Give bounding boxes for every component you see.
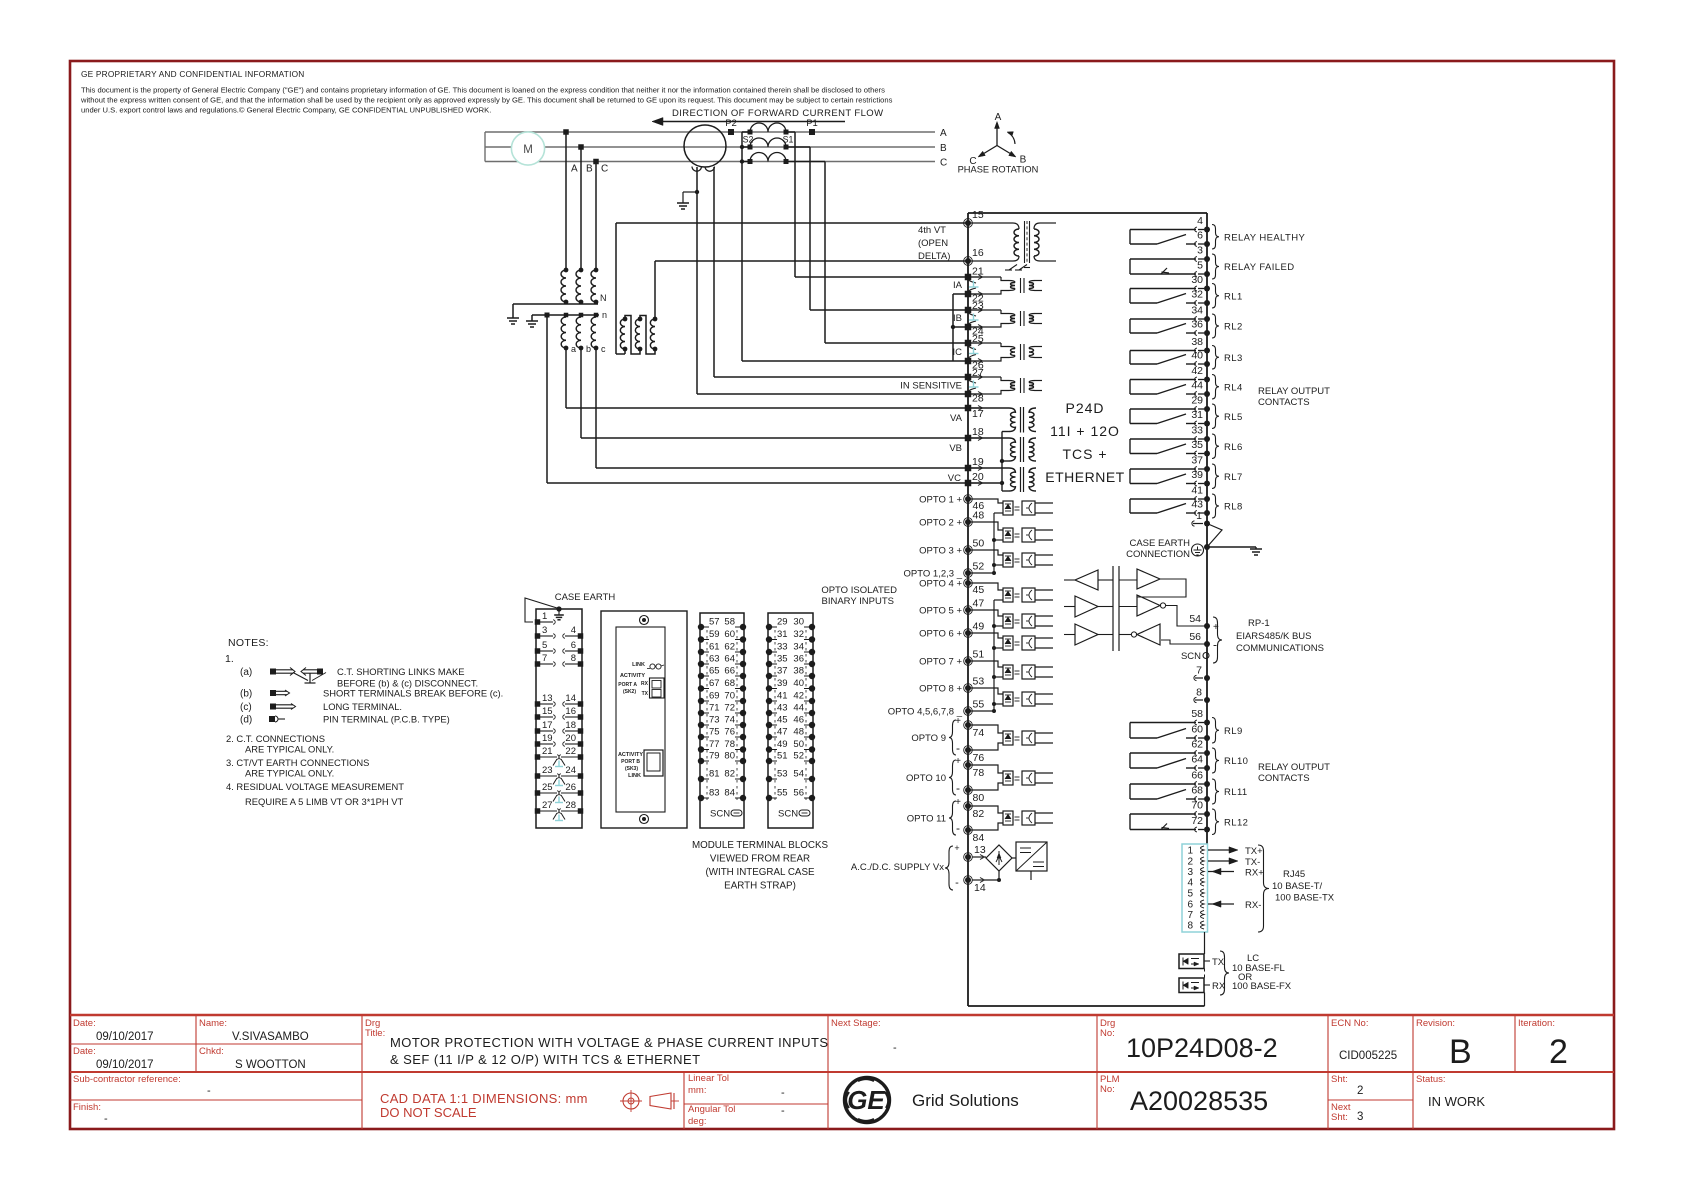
wire c to terminal 19 [595, 348, 597, 468]
svg-text:3: 3 [1187, 867, 1193, 878]
svg-text:31: 31 [1191, 409, 1203, 421]
terminal block TB2 outline [700, 613, 744, 828]
svg-text:34: 34 [1191, 305, 1203, 317]
svg-text:8: 8 [571, 653, 576, 664]
TB2 dashed strap [706, 630, 708, 800]
svg-text:OPTO 11: OPTO 11 [907, 814, 946, 825]
svg-text:63: 63 [709, 654, 720, 665]
terminal 28 [965, 391, 972, 398]
svg-text:n: n [602, 310, 607, 320]
svg-text:VC: VC [948, 473, 961, 484]
svg-text:55: 55 [777, 788, 788, 799]
relay contact RL3 [1204, 348, 1210, 354]
svg-text:23: 23 [542, 765, 553, 776]
svg-text:46: 46 [793, 715, 804, 726]
svg-text:62: 62 [724, 642, 735, 653]
terminal 25 [965, 340, 972, 347]
svg-text:deg:: deg: [688, 1116, 707, 1127]
svg-text:67: 67 [709, 678, 720, 689]
opto input OPTO 11 [965, 803, 971, 809]
svg-text:PORT B: PORT B [621, 759, 640, 765]
svg-text:MODULE TERMINAL BLOCKS: MODULE TERMINAL BLOCKS [692, 840, 829, 851]
opto input 8 [968, 688, 1003, 694]
svg-text:Sht:: Sht: [1331, 1112, 1348, 1123]
svg-text:35: 35 [1191, 439, 1203, 451]
svg-text:4. RESIDUAL VOLTAGE MEASURE: 4. RESIDUAL VOLTAGE MEASUREMENT [226, 781, 404, 792]
opto input 2 [968, 522, 1003, 530]
svg-text:(a): (a) [240, 667, 252, 678]
svg-text:-: - [956, 821, 960, 835]
svg-text:Finish:: Finish: [73, 1102, 101, 1113]
svg-text:PHASE ROTATION: PHASE ROTATION [958, 165, 1039, 175]
svg-text:OPTO 4 +: OPTO 4 + [919, 579, 962, 590]
VT secondary winding b [579, 313, 584, 318]
terminal 8 [1204, 697, 1210, 703]
svg-text:56: 56 [1189, 631, 1201, 643]
svg-text:V.SIVASAMBO: V.SIVASAMBO [232, 1031, 309, 1043]
terminal 24 [965, 324, 972, 331]
svg-text:29: 29 [777, 617, 788, 628]
TB3 terminals 51/52 [766, 758, 772, 764]
svg-text:RL6: RL6 [1224, 442, 1243, 453]
TB1 terminals 5/6 [535, 648, 541, 654]
svg-text:82: 82 [973, 808, 985, 820]
relay contact RL2 [1204, 316, 1210, 322]
relay contact RL11 [1204, 781, 1210, 787]
opto input OPTO 9 [965, 722, 971, 728]
module screw top [640, 616, 649, 625]
wire n to earth [531, 315, 533, 321]
svg-text:13: 13 [542, 693, 553, 704]
svg-text:ETHERNET: ETHERNET [1045, 469, 1124, 485]
svg-text:31: 31 [777, 629, 788, 640]
svg-text:25: 25 [542, 782, 553, 793]
wire phase A drop [563, 129, 569, 135]
TB1 terminals 27/28 [535, 808, 541, 814]
IN shorting link [969, 380, 977, 383]
terminal 26 [965, 358, 972, 365]
TB2 terminals 79/80 [698, 758, 704, 764]
opto terminal 50 [965, 547, 971, 553]
svg-text:77: 77 [709, 739, 720, 750]
relay contact RL5 [1204, 406, 1210, 412]
svg-text:IN WORK: IN WORK [1428, 1094, 1485, 1109]
svg-text:+: + [954, 843, 959, 853]
svg-text:S WOOTTON: S WOOTTON [235, 1059, 306, 1071]
svg-text:-: - [956, 741, 960, 755]
svg-text:MOTOR PROTECTION WITH VOLTAGE: MOTOR PROTECTION WITH VOLTAGE & PHASE CU… [390, 1035, 828, 1050]
TB3 terminals 29/30 [766, 624, 772, 630]
svg-text:DELTA): DELTA) [918, 251, 950, 262]
terminal 27 [965, 374, 972, 381]
ring CT T1 (core balance) [684, 125, 726, 167]
svg-text:18: 18 [972, 426, 984, 438]
terminal 18 [965, 435, 972, 442]
wire S2 common riser [741, 132, 743, 361]
TB1 terminals 17/18 [535, 728, 541, 734]
svg-text:2: 2 [1187, 857, 1193, 868]
svg-text:ECN No:: ECN No: [1331, 1018, 1368, 1029]
svg-text:ACTIVITY: ACTIVITY [620, 673, 645, 679]
svg-text:83: 83 [709, 788, 720, 799]
svg-text:100 BASE-FX: 100 BASE-FX [1232, 981, 1292, 992]
svg-text:B: B [1449, 1033, 1472, 1071]
svg-text:8: 8 [1196, 687, 1202, 699]
relay contact RL12 [1204, 811, 1210, 817]
svg-text:P24D: P24D [1065, 400, 1104, 416]
svg-text:-: - [781, 1105, 785, 1117]
svg-text:a: a [571, 344, 576, 354]
svg-text:COMMUNICATIONS: COMMUNICATIONS [1236, 643, 1324, 654]
svg-text:1: 1 [1196, 510, 1202, 522]
svg-text:& SEF (11 I/P & 12 O/P) WITH T: & SEF (11 I/P & 12 O/P) WITH TCS & ETHER… [390, 1052, 700, 1067]
psu dc/dc converter U2 [1016, 842, 1047, 871]
svg-text:under U.S. export control laws: under U.S. export control laws and regul… [81, 106, 491, 115]
svg-text:30: 30 [793, 617, 804, 628]
IA shorting link [969, 280, 977, 283]
svg-text:39: 39 [777, 678, 788, 689]
VT secondary winding c [594, 313, 599, 318]
svg-text:68: 68 [724, 678, 735, 689]
svg-text:CASE EARTH: CASE EARTH [555, 592, 616, 603]
svg-text:Iteration:: Iteration: [1518, 1018, 1555, 1029]
svg-text:LINK: LINK [632, 662, 645, 668]
svg-text:B: B [940, 143, 947, 154]
svg-text:TX-: TX- [1245, 857, 1260, 868]
direction arrow [658, 121, 845, 123]
svg-text:No:: No: [1100, 1084, 1115, 1095]
line CT phase C [750, 153, 786, 162]
svg-text:20: 20 [972, 471, 984, 483]
VT primary winding C [594, 268, 599, 273]
svg-text:50: 50 [973, 538, 985, 550]
wire terminal 15 to open delta [616, 222, 968, 224]
TB2 terminals 75/76 [698, 734, 704, 740]
svg-text:21: 21 [542, 746, 553, 757]
svg-text:11I + 12O: 11I + 12O [1050, 423, 1120, 439]
svg-text:18: 18 [565, 720, 576, 731]
TB1 terminals 19/20 [535, 741, 541, 747]
svg-text:OPTO 7 +: OPTO 7 + [919, 657, 962, 668]
svg-text:RL9: RL9 [1224, 726, 1243, 737]
svg-text:M: M [523, 144, 533, 156]
svg-text:CASE EARTH: CASE EARTH [1129, 538, 1190, 549]
svg-text:58: 58 [1191, 708, 1203, 720]
svg-text:53: 53 [973, 676, 985, 688]
VT VB input [968, 437, 1009, 439]
svg-text:62: 62 [1191, 739, 1203, 751]
svg-text:64: 64 [1191, 754, 1203, 766]
svg-text:PIN TERMINAL (P.C.B. TYPE): PIN TERMINAL (P.C.B. TYPE) [323, 714, 450, 725]
svg-text:49: 49 [777, 739, 788, 750]
svg-text:5: 5 [1187, 889, 1193, 900]
svg-text:19: 19 [542, 733, 553, 744]
relay contact RL8 [1204, 496, 1210, 502]
svg-text:CONTACTS: CONTACTS [1258, 773, 1310, 784]
svg-text:66: 66 [1191, 770, 1203, 782]
opto terminal 48 [965, 519, 971, 525]
svg-text:OPTO ISOLATED: OPTO ISOLATED [821, 585, 897, 596]
svg-text:RX: RX [1212, 981, 1226, 992]
svg-text:-: - [781, 1087, 785, 1099]
svg-text:LONG TERMINAL.: LONG TERMINAL. [323, 701, 402, 712]
TB1 terminals 3/4 [535, 633, 541, 639]
svg-text:CONTACTS: CONTACTS [1258, 397, 1310, 408]
TB2 terminals 81/82 [698, 776, 704, 782]
svg-text:3: 3 [542, 625, 547, 636]
svg-text:GE PROPRIETARY AND CONFIDENTIA: GE PROPRIETARY AND CONFIDENTIAL INFORMAT… [81, 69, 304, 79]
relay P24D case outline [968, 212, 1207, 214]
wire ring CT to terminal 28 [696, 167, 698, 394]
wire b to terminal 18 VB [580, 348, 582, 438]
svg-text:35: 35 [777, 654, 788, 665]
svg-text:41: 41 [777, 691, 788, 702]
bus left end wire [484, 132, 486, 162]
svg-text:SCN: SCN [710, 809, 730, 820]
TB3 terminals 55/56 [766, 795, 772, 801]
svg-text:RX-: RX- [1245, 900, 1261, 911]
isolation barrier capacitors [1112, 566, 1114, 651]
TB1 terminals 21/22 [535, 754, 541, 760]
svg-text:70: 70 [724, 691, 735, 702]
opto terminal 55 [965, 708, 971, 714]
terminal 13 [965, 854, 971, 860]
svg-text:15: 15 [972, 209, 984, 221]
module screw bottom [640, 815, 649, 824]
svg-text:10 BASE-T/: 10 BASE-T/ [1272, 881, 1323, 892]
motor M1 [511, 132, 544, 165]
opto input 3 [968, 550, 1003, 555]
svg-text:51: 51 [777, 751, 788, 762]
svg-text:57: 57 [709, 617, 720, 628]
VT primary winding B [579, 268, 584, 273]
wire rectifier to psu [1012, 857, 1016, 859]
svg-text:4: 4 [1187, 878, 1193, 889]
svg-text:6: 6 [571, 640, 576, 651]
svg-text:ARE TYPICAL ONLY.: ARE TYPICAL ONLY. [245, 744, 334, 755]
svg-text:70: 70 [1191, 800, 1203, 812]
svg-text:VA: VA [950, 413, 963, 424]
svg-text:50: 50 [793, 739, 804, 750]
svg-text:74: 74 [724, 715, 735, 726]
relay contact RL9 [1204, 720, 1210, 726]
IC shorting link [969, 346, 977, 350]
bus B wire [485, 146, 935, 148]
port A connector [650, 678, 665, 698]
node case earth [1204, 544, 1210, 550]
svg-text:N: N [600, 293, 607, 303]
svg-text:47: 47 [973, 598, 985, 610]
TB2 terminals 61/62 [698, 649, 704, 655]
TB3 terminals 43/44 [766, 710, 772, 716]
svg-text:17: 17 [972, 408, 984, 420]
svg-text:Title:: Title: [365, 1028, 385, 1039]
svg-text:TX: TX [642, 691, 649, 697]
svg-text:7: 7 [542, 653, 547, 664]
svg-text:P1: P1 [806, 118, 818, 129]
svg-text:71: 71 [709, 703, 720, 714]
svg-text:09/10/2017: 09/10/2017 [96, 1031, 154, 1043]
terminal 20 [965, 480, 972, 487]
TB3 terminals 53/54 [766, 776, 772, 782]
TCS supervision symbol [1009, 265, 1017, 271]
rs485 buffer U5 [1075, 624, 1098, 645]
svg-text:14: 14 [565, 693, 576, 704]
svg-text:6: 6 [1187, 900, 1193, 911]
opto input 7 [968, 661, 1003, 667]
open delta link 2-3 [640, 316, 655, 355]
TB3 dashed strap [774, 630, 776, 800]
RJ45 TX+ wire [1208, 849, 1234, 851]
svg-text:RELAY OUTPUT: RELAY OUTPUT [1258, 762, 1330, 773]
svg-text:3: 3 [1357, 1111, 1363, 1123]
TB3 terminals 49/50 [766, 746, 772, 752]
bridge rectifier [986, 845, 1012, 871]
svg-text:38: 38 [793, 666, 804, 677]
svg-text:C: C [940, 158, 947, 169]
svg-text:RL12: RL12 [1224, 817, 1248, 828]
svg-text:40: 40 [1191, 350, 1203, 362]
svg-text:43: 43 [777, 703, 788, 714]
svg-text:84: 84 [973, 832, 985, 844]
svg-text:IN SENSITIVE: IN SENSITIVE [900, 381, 962, 392]
CT P1 terminal [809, 129, 815, 135]
svg-text:27: 27 [542, 800, 553, 811]
svg-text:+: + [955, 716, 961, 727]
wire n to terminal 20 [546, 315, 548, 483]
svg-text:OPTO 2 +: OPTO 2 + [919, 518, 962, 529]
TB3 terminals 35/36 [766, 661, 772, 667]
svg-text:76: 76 [724, 727, 735, 738]
line CT phase B [750, 138, 786, 147]
terminal 14 [965, 877, 971, 883]
CT P2 terminal [728, 129, 734, 135]
relay contact RL10 [1204, 750, 1210, 756]
terminal 23 [965, 307, 972, 314]
TB1 terminals 23/24 [535, 773, 541, 779]
svg-text:ARE TYPICAL ONLY.: ARE TYPICAL ONLY. [245, 768, 334, 779]
svg-text:74: 74 [973, 727, 985, 739]
svg-text:34: 34 [793, 642, 804, 653]
svg-text:52: 52 [973, 561, 985, 573]
wire N to earth [513, 303, 566, 305]
svg-text:RP-1: RP-1 [1248, 618, 1270, 629]
svg-text:72: 72 [724, 703, 735, 714]
svg-text:Date:: Date: [73, 1046, 96, 1057]
svg-text:3. CT/VT EARTH CONNECTIONS: 3. CT/VT EARTH CONNECTIONS [226, 757, 369, 768]
svg-text:21: 21 [972, 266, 984, 278]
terminal 15 [965, 220, 971, 226]
svg-text:7: 7 [1196, 665, 1202, 677]
VT common neutral to terminal 20 [1001, 432, 1003, 492]
TB1 terminals 13/14 [535, 701, 541, 707]
wire ring CT to terminal 27 [713, 167, 715, 377]
svg-text:Grid Solutions: Grid Solutions [912, 1091, 1019, 1110]
opto terminal 52 [965, 570, 971, 576]
ground symbol VT secondary [526, 320, 538, 322]
RJ45 brace and labels [1258, 845, 1269, 932]
VT VA input [968, 407, 1009, 409]
svg-text:19: 19 [972, 456, 984, 468]
svg-text:TCS +: TCS + [1062, 446, 1107, 462]
svg-text:65: 65 [709, 666, 720, 677]
svg-text:RELAY HEALTHY: RELAY HEALTHY [1224, 232, 1305, 243]
svg-text:RL10: RL10 [1224, 756, 1248, 767]
VT secondary winding a [564, 313, 569, 318]
svg-text:45: 45 [777, 715, 788, 726]
svg-text:73: 73 [709, 715, 720, 726]
terminal 19 [965, 465, 972, 472]
ground symbol VT primary [507, 317, 519, 319]
svg-text:30: 30 [1191, 274, 1203, 286]
rs485 brace and labels [1213, 617, 1222, 663]
wire case earth to ground [1207, 546, 1256, 548]
terminal block TB3 outline [768, 613, 813, 828]
rs485 buffer U6 [1137, 569, 1160, 589]
svg-text:RL8: RL8 [1224, 502, 1243, 513]
node CT common vertical [952, 294, 954, 361]
svg-text:(b): (b) [240, 689, 252, 700]
svg-text:7: 7 [1187, 910, 1193, 921]
svg-text:54: 54 [1189, 613, 1201, 625]
svg-text:59: 59 [709, 629, 720, 640]
svg-text:6: 6 [1197, 230, 1203, 242]
wire S2 common to terminal 26 bus [742, 360, 953, 362]
svg-text:C.T. SHORTING LINKS MAKE: C.T. SHORTING LINKS MAKE [337, 666, 464, 677]
svg-text:TX+: TX+ [1245, 846, 1263, 857]
ground tap on ring CT wire [695, 190, 699, 194]
svg-text:33: 33 [1191, 425, 1203, 437]
TB2 terminals 65/66 [698, 673, 704, 679]
svg-text:A: A [995, 112, 1002, 123]
svg-text:+: + [955, 756, 961, 767]
svg-text:22: 22 [565, 746, 576, 757]
svg-text:OPTO 6 +: OPTO 6 + [919, 629, 962, 640]
terminal 16 [965, 258, 971, 264]
CT IN sensitive input [968, 376, 1001, 378]
svg-text:33: 33 [777, 642, 788, 653]
svg-text:PORT A: PORT A [618, 682, 637, 688]
wire terminal 1 to case earth node [1207, 524, 1222, 548]
svg-text:44: 44 [793, 703, 804, 714]
svg-text:RX+: RX+ [1245, 868, 1264, 879]
svg-text:38: 38 [1191, 336, 1203, 348]
svg-text:4: 4 [1197, 215, 1203, 227]
svg-text:-: - [207, 1085, 211, 1097]
TB2 terminals 77/78 [698, 746, 704, 752]
svg-text:43: 43 [1191, 499, 1203, 511]
opto input OPTO 10 [965, 762, 971, 768]
svg-text:36: 36 [793, 654, 804, 665]
wire B-phase S1 to terminal 23 [786, 146, 810, 148]
terminal 21 [965, 274, 972, 281]
svg-text:2: 2 [1549, 1033, 1568, 1071]
svg-text:RL1: RL1 [1224, 291, 1243, 302]
svg-text:RELAY OUTPUT: RELAY OUTPUT [1258, 386, 1330, 397]
open delta winding 3 [653, 317, 658, 322]
svg-text:54: 54 [793, 769, 804, 780]
terminal 22 [965, 291, 972, 298]
wire phase C drop [593, 159, 599, 165]
wire rectifier minus to 14 [985, 871, 1000, 880]
svg-text:SHORT TERMINALS BREAK BEFORE (: SHORT TERMINALS BREAK BEFORE (c). [323, 688, 503, 699]
RJ45 TX- wire [1208, 860, 1234, 862]
VT primary winding A [564, 268, 569, 273]
CT IC input [968, 342, 1001, 344]
opto terminal 46 [965, 496, 971, 502]
svg-text:RL5: RL5 [1224, 412, 1243, 423]
IB shorting link [969, 313, 977, 316]
